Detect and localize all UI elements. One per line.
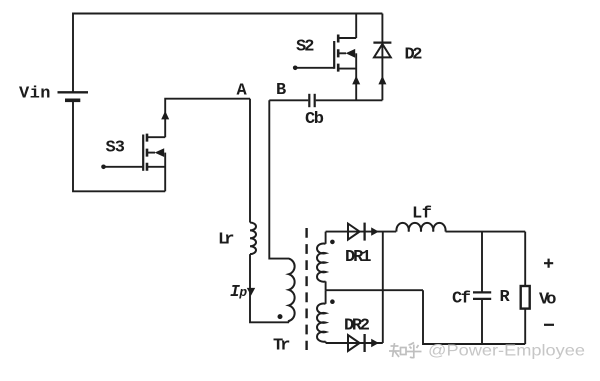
svg-text:S2: S2 [296,38,315,57]
svg-text:Vin: Vin [19,85,51,104]
svg-text:Lr: Lr [218,231,235,250]
svg-text:Cb: Cb [305,110,324,129]
svg-text:Ip: Ip [230,282,247,301]
svg-text:Vo: Vo [539,291,557,310]
svg-text:DR2: DR2 [344,317,370,336]
svg-text:@Power-Employee: @Power-Employee [428,343,585,360]
svg-text:Lf: Lf [412,205,432,224]
svg-text:A: A [237,82,248,101]
svg-text:Tr: Tr [273,337,291,356]
svg-text:D2: D2 [405,46,423,65]
svg-text:B: B [276,81,286,100]
svg-text:DR1: DR1 [345,248,372,267]
svg-text:R: R [500,288,511,307]
svg-text:S3: S3 [106,139,126,158]
svg-text:Cf: Cf [452,290,471,309]
